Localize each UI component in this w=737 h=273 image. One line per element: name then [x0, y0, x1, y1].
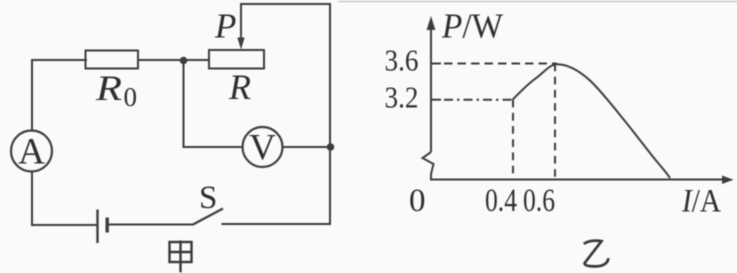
svg-text:V: V — [249, 128, 276, 169]
x-axis I — [430, 179, 724, 181]
wire left vertical top — [32, 60, 86, 130]
svg-text:3.2: 3.2 — [385, 80, 419, 115]
wire R0 to R — [138, 59, 209, 61]
scan edge top — [338, 1, 737, 3]
dashed vertical 0.6 — [554, 64, 556, 180]
svg-text:P: P — [214, 7, 236, 46]
node junction left — [180, 57, 188, 65]
tick 3.6 — [430, 63, 441, 65]
axis break — [423, 152, 434, 180]
resistor R0 — [86, 51, 139, 69]
slider P arrow — [237, 38, 244, 50]
node junction right — [327, 143, 335, 151]
wire junction down to voltmeter — [184, 62, 243, 147]
svg-text:0: 0 — [124, 82, 138, 112]
svg-text:A: A — [18, 132, 45, 173]
dashed vertical 0.4 — [512, 100, 514, 179]
ammeter A — [11, 131, 52, 172]
svg-text:0.4: 0.4 — [485, 183, 517, 219]
voltmeter V — [243, 127, 283, 167]
dashed line 3.2 — [444, 99, 513, 101]
label 乙 — [584, 241, 609, 267]
switch S lever — [193, 209, 223, 225]
wire battery to switch — [108, 224, 194, 226]
svg-text:P/W: P/W — [441, 6, 503, 45]
svg-text:I/A: I/A — [681, 184, 721, 220]
label 甲 — [170, 241, 192, 273]
svg-text:R: R — [228, 67, 251, 107]
wire left vertical bottom — [32, 172, 96, 225]
dashed line 3.6 — [444, 63, 557, 65]
svg-text:R: R — [95, 68, 122, 108]
battery — [96, 210, 98, 244]
y-axis P — [430, 26, 432, 152]
svg-text:S: S — [199, 180, 217, 216]
tick 3.2 — [430, 99, 441, 101]
wire slider top loop and right rail — [223, 4, 331, 224]
svg-text:0: 0 — [409, 183, 426, 219]
wire voltmeter to right rail — [283, 146, 330, 148]
svg-text:3.6: 3.6 — [385, 42, 419, 77]
curve P-I — [513, 64, 671, 178]
rheostat R — [209, 50, 264, 69]
svg-text:0.6: 0.6 — [523, 183, 555, 219]
